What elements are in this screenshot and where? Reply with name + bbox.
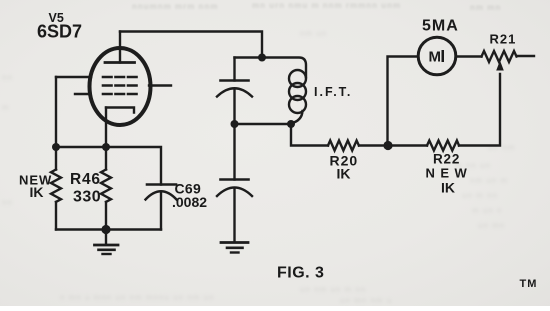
svg-text:R21: R21 xyxy=(490,32,517,47)
svg-text:n mn u mnn un nm mnnu un nm un: n mn u mnn un nm mnnu un nm un xyxy=(60,293,215,302)
svg-text:.0082: .0082 xyxy=(172,194,207,210)
svg-text:nm mn: nm mn xyxy=(470,3,501,12)
svg-text:6SD7: 6SD7 xyxy=(37,22,82,42)
svg-text:nm un m: nm un m xyxy=(470,176,508,185)
svg-text:nm un: nm un xyxy=(300,29,327,38)
svg-text:m un n: m un n xyxy=(472,206,502,215)
svg-text:R46: R46 xyxy=(70,171,101,188)
svg-text:nnumnm mrm nnm: nnumnm mrm nnm xyxy=(132,2,218,11)
svg-text:nn: nn xyxy=(2,73,13,82)
svg-text:m: m xyxy=(2,103,10,112)
svg-text:un mn: un mn xyxy=(478,221,505,230)
svg-text:nn: nn xyxy=(2,198,13,207)
svg-text:un m nn: un m nn xyxy=(462,191,498,200)
svg-text:IK: IK xyxy=(337,166,351,182)
svg-text:FIG. 3: FIG. 3 xyxy=(277,265,324,282)
svg-text:un mn nm u: un mn nm u xyxy=(340,296,392,305)
svg-text:TM: TM xyxy=(520,278,538,290)
svg-text:un nm un m nn: un nm un m nn xyxy=(300,285,366,294)
svg-text:330: 330 xyxy=(73,189,101,206)
svg-text:I.F.T.: I.F.T. xyxy=(314,85,352,99)
svg-text:NEW: NEW xyxy=(426,166,473,181)
svg-text:IK: IK xyxy=(30,184,44,200)
svg-text:5MA: 5MA xyxy=(422,18,459,35)
svg-text:IK: IK xyxy=(441,180,455,196)
svg-text:mn urn nmu m nnm rmmnn unm: mn urn nmu m nnm rmmnn unm xyxy=(252,1,401,10)
svg-text:M: M xyxy=(429,49,442,66)
svg-text:R22: R22 xyxy=(433,152,460,167)
